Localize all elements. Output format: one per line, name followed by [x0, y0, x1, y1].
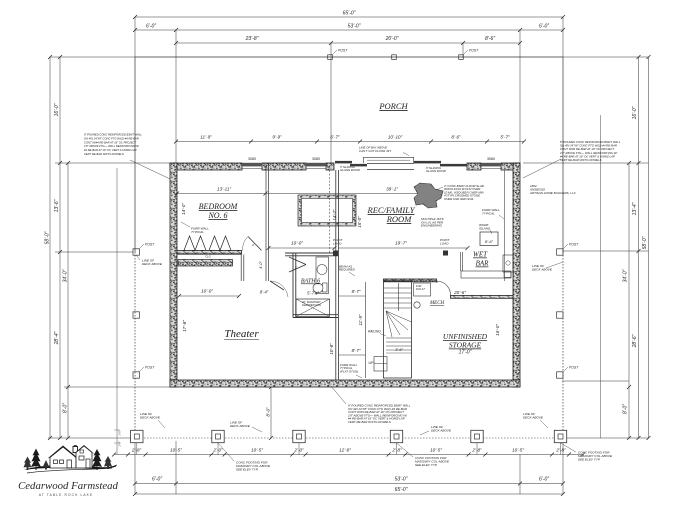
svg-text:WET: WET: [473, 251, 488, 259]
room label BEDROOM NO. 6: [199, 202, 239, 220]
svg-text:POST: POST: [145, 366, 155, 370]
label furr wall typical wet bar: [482, 208, 504, 219]
svg-text:RAILING: RAILING: [368, 330, 381, 334]
porch post: [392, 55, 397, 60]
work island wet bar: [479, 223, 498, 246]
svg-text:LOAD: LOAD: [333, 241, 342, 245]
svg-text:Cedarwood Farmstead: Cedarwood Farmstead: [18, 480, 118, 492]
svg-text:13’-11”: 13’-11”: [217, 187, 231, 192]
concrete footing for masonry column: [554, 430, 566, 454]
top extension lines: [135, 17, 563, 163]
masonry shower pan: [296, 299, 330, 317]
line of bay above: [359, 146, 414, 164]
svg-text:53’-0”: 53’-0”: [395, 477, 408, 483]
label line of deck above (bottom left-mid): [230, 421, 262, 433]
dim top row overall 65'-0": [133, 11, 565, 20]
concrete footing for masonry column: [293, 430, 305, 454]
note poured conc wall right: [523, 140, 621, 178]
svg-text:2’-0”: 2’-0”: [212, 448, 223, 453]
hall left wall: [240, 255, 242, 281]
stair shaft: [384, 281, 412, 378]
svg-text:POST: POST: [338, 49, 348, 53]
storage top wall: [451, 296, 514, 299]
label furr wall typical storage: [340, 363, 362, 378]
deck bottom edge (line of deck above): [135, 437, 563, 439]
svg-text:OVER UND GRD SOIL: OVER UND GRD SOIL: [444, 197, 474, 201]
svg-text:2’8” ABOVE FTG— WALL REINFORCI: 2’8” ABOVE FTG— WALL REINFORCING W/: [83, 144, 139, 148]
dim top row 6'/53'/6': [133, 24, 565, 33]
svg-text:17’-0”: 17’-0”: [459, 350, 472, 356]
svg-text:28’-4”: 28’-4”: [54, 331, 60, 345]
bedroom right wall: [265, 163, 267, 281]
hall door to theater with swing: [260, 281, 288, 297]
svg-text:GLASS DOOR: GLASS DOOR: [340, 168, 361, 172]
porch dim row 11'-9" etc: [174, 135, 526, 144]
note conc footing right: [561, 443, 613, 461]
stone hearth crosshatched: [414, 183, 443, 208]
svg-text:5’-7¾”: 5’-7¾”: [307, 291, 319, 296]
bar sink counter L-shape: [461, 255, 513, 278]
svg-text:14’-0”: 14’-0”: [181, 203, 186, 215]
dim left 34' / 8' line: [63, 161, 71, 440]
basement wall top-right segment: [501, 163, 520, 170]
stair hall dim 8'-7" lower: [339, 348, 366, 355]
theater dim 10'-0": [177, 289, 241, 299]
window 3080 den: [306, 157, 326, 169]
svg-text:8’-0”: 8’-0”: [623, 404, 629, 414]
logo cedarwood farmstead illustration: [24, 445, 118, 473]
concrete footing for masonry column: [390, 430, 402, 454]
svg-text:2’-0”: 2’-0”: [293, 448, 304, 453]
svg-text:LOAD: LOAD: [440, 241, 449, 245]
svg-text:17’-8”: 17’-8”: [182, 320, 187, 332]
svg-text:10’-8”: 10’-8”: [329, 343, 334, 355]
right extension lines: [523, 57, 649, 438]
rev circle mech: [414, 302, 420, 308]
svg-text:10’-10”: 10’-10”: [388, 135, 403, 140]
basement wall top seg between windows: [262, 163, 306, 170]
svg-text:8’-4”: 8’-4”: [260, 290, 269, 295]
porch/deck top edge: [135, 56, 563, 58]
label beam as required: [339, 265, 356, 277]
dim bottom 65' row: [133, 487, 565, 496]
svg-text:Theater: Theater: [224, 328, 259, 340]
left extension lines: [48, 57, 170, 438]
svg-text:PLN AT: PLN AT: [416, 287, 425, 291]
svg-text:8’-6”: 8’-6”: [485, 36, 495, 42]
bath left wall: [292, 253, 294, 318]
8' sliding glass door: [414, 161, 467, 173]
svg-text:3080: 3080: [312, 157, 320, 161]
furr wall line right: [504, 170, 506, 281]
svg-text:10’-0”: 10’-0”: [201, 289, 213, 294]
svg-text:10’-5”: 10’-5”: [430, 448, 442, 453]
svg-text:SEE ELEV TYP.: SEE ELEV TYP.: [415, 463, 438, 467]
basement wall top seg door2-window3: [467, 163, 481, 170]
svg-text:20’-6”: 20’-6”: [453, 290, 466, 295]
svg-text:58’-0”: 58’-0”: [642, 236, 648, 249]
svg-text:(FLAT STUD): (FLAT STUD): [340, 369, 358, 373]
closet furr band: [178, 260, 233, 267]
stair/mech top wall: [384, 279, 437, 282]
note conc bsmt floor slab: [436, 184, 485, 201]
room label WET BAR: [473, 251, 489, 268]
svg-text:34’-0”: 34’-0”: [63, 269, 69, 282]
svg-text:19’-7”: 19’-7”: [395, 241, 407, 246]
svg-text:BEDROOM: BEDROOM: [199, 202, 239, 211]
deck post right: [557, 243, 580, 256]
svg-text:11’-9”: 11’-9”: [200, 135, 212, 140]
label line of deck above (bottom far-right): [523, 412, 548, 428]
porch post: [459, 49, 479, 60]
svg-text:SEE ELEV TYP.: SEE ELEV TYP.: [578, 457, 601, 461]
svg-text:28’-6”: 28’-6”: [632, 334, 638, 348]
basement wall bottom: [170, 380, 520, 387]
centre wall theater/rec: [336, 170, 339, 380]
bedroom door with swing: [242, 237, 261, 251]
svg-text:3080: 3080: [487, 157, 495, 161]
closet wall bedroom bottom: [177, 250, 242, 254]
deck post left: [133, 366, 155, 379]
deck right edge: [562, 57, 564, 252]
bath door leaf: [289, 257, 306, 272]
tray/soffit rectangle 14'-2": [298, 195, 356, 226]
footing extension line left: [116, 168, 118, 454]
svg-text:34’-0”: 34’-0”: [623, 269, 629, 282]
bath top wall: [285, 252, 338, 254]
stair landing: [369, 357, 388, 372]
svg-text:ON 4IN 24”X8” CONC FTG W/(2)-#: ON 4IN 24”X8” CONC FTG W/(2)-#4 RE-BAR: [84, 136, 139, 140]
svg-text:DECK ABOVE: DECK ABOVE: [532, 267, 553, 271]
svg-text:ENGINEERING: ENGINEERING: [421, 224, 443, 228]
label line of deck above (right edge): [532, 262, 563, 271]
stair hall wall: [365, 282, 367, 378]
svg-text:DECK ABOVE: DECK ABOVE: [140, 415, 161, 419]
porch post: [328, 49, 348, 60]
deck left edge (line of deck above): [134, 57, 136, 252]
toilet bath 6: [313, 283, 327, 293]
svg-text:VERT RE-BAR W/FTG DOWELS: VERT RE-BAR W/FTG DOWELS: [348, 420, 391, 424]
svg-text:16’-0”: 16’-0”: [54, 103, 60, 116]
svg-text:8’-0”: 8’-0”: [63, 403, 69, 413]
svg-text:DECK ABOVE: DECK ABOVE: [142, 262, 163, 266]
svg-text:4’-0”: 4’-0”: [259, 260, 263, 268]
svg-text:8’-7”: 8’-7”: [352, 348, 361, 353]
svg-text:65’-0”: 65’-0”: [395, 487, 408, 493]
svg-text:ISLAND: ISLAND: [479, 226, 491, 230]
svg-text:REQUIRED: REQUIRED: [339, 268, 356, 272]
wet bar left furr wall: [460, 252, 462, 271]
room label UNFINISHED STORAGE: [443, 332, 488, 356]
svg-text:8’-6”: 8’-6”: [451, 135, 461, 140]
svg-text:TYPICAL: TYPICAL: [191, 230, 204, 234]
svg-text:6’-0”: 6’-0”: [146, 24, 156, 30]
footing extension line right: [600, 115, 602, 438]
note poured conc wall left: [83, 133, 170, 180]
svg-text:SEE ELEV TYP.: SEE ELEV TYP.: [236, 467, 259, 471]
svg-text:MECH: MECH: [429, 301, 445, 306]
svg-text:STORAGE: STORAGE: [449, 341, 482, 350]
window 3080 bedroom: [242, 157, 262, 169]
stair dim 3'-6": [386, 348, 412, 353]
svg-text:ROOM: ROOM: [386, 214, 412, 224]
svg-text:13’-4”: 13’-4”: [632, 202, 638, 215]
svg-text:53’-0”: 53’-0”: [348, 24, 361, 30]
svg-text:10’-5”: 10’-5”: [512, 448, 524, 453]
note conc footing left: [218, 443, 271, 471]
deck post left: [133, 312, 139, 318]
bath bottom wall: [293, 314, 338, 316]
svg-text:3’-6”: 3’-6”: [395, 348, 403, 352]
svg-text:6’-0”: 6’-0”: [152, 477, 162, 483]
svg-text:SHOWER PAN: SHOWER PAN: [302, 303, 322, 307]
svg-text:DECK ABOVE: DECK ABOVE: [431, 428, 452, 432]
basement wall right: [513, 163, 520, 387]
stair hall dim 8'-7" upper: [339, 289, 366, 296]
svg-text:8” POURED CONC REINFORCED BSMT: 8” POURED CONC REINFORCED BSMT WALL: [84, 133, 143, 137]
dim bottom 6'/53'/6' row: [133, 477, 565, 486]
label furr wall typical bedroom: [181, 222, 209, 234]
svg-text:PORCH: PORCH: [378, 101, 408, 111]
concrete footing for masonry column: [131, 430, 143, 454]
basement wall top seg window2-door1: [326, 163, 334, 170]
deck post right: [557, 366, 580, 379]
dim 13'-11" bedroom: [175, 187, 268, 196]
svg-text:16’-0”: 16’-0”: [357, 216, 362, 228]
dim 8'-0" deck bottom centre: [264, 385, 278, 440]
svg-text:POST: POST: [469, 49, 479, 53]
svg-text:2’-8”: 2’-8”: [131, 448, 142, 453]
svg-text:8’-7”: 8’-7”: [352, 289, 361, 294]
svg-text:6’-0”: 6’-0”: [539, 477, 549, 483]
svg-text:23’-8”: 23’-8”: [245, 36, 259, 42]
mech door arc: [437, 281, 451, 296]
basement wall top seg under bay (no hatch): [367, 163, 414, 169]
vanity counter bath 6: [316, 257, 329, 294]
room label REC/FAMILY ROOM: [367, 205, 416, 224]
furnace plenum box: [414, 283, 431, 296]
footing dim 1'-0" marks: [114, 430, 122, 447]
svg-text:DECK ABOVE: DECK ABOVE: [523, 415, 544, 419]
label railing: [368, 330, 386, 337]
svg-text:10’-5”: 10’-5”: [251, 448, 263, 453]
svg-text:3’: 3’: [252, 243, 255, 247]
svg-text:POST: POST: [145, 243, 155, 247]
svg-text:58’-0”: 58’-0”: [45, 231, 51, 244]
svg-text:POST: POST: [569, 366, 579, 370]
svg-text:2’-8”: 2’-8”: [471, 448, 482, 453]
note poured conc wall bottom: [331, 386, 411, 424]
svg-text:NO. 6: NO. 6: [207, 211, 227, 220]
svg-text:BAR: BAR: [476, 260, 490, 268]
basement wall top-left segment: [170, 163, 242, 170]
svg-text:POST: POST: [569, 243, 579, 247]
svg-text:2’-8”: 2’-8”: [391, 448, 402, 453]
label line of deck above (bottom right-mid): [420, 425, 452, 435]
window 3080 rec room: [481, 157, 501, 169]
beam dashed line centre: [329, 170, 331, 253]
svg-text:ARTISAN HOME BUILDERS, LLC: ARTISAN HOME BUILDERS, LLC: [529, 191, 577, 195]
concrete footing for masonry column: [471, 430, 483, 454]
svg-text:CAN’T OUT FLOOR JST: CAN’T OUT FLOOR JST: [359, 149, 391, 153]
5' sliding glass door: [335, 161, 367, 172]
dim top row 23'-8"/20'/8'-6": [174, 36, 522, 45]
dim left 58'-0" line: [45, 55, 53, 440]
svg-text:2’-8”: 2’-8”: [555, 448, 566, 453]
label line of deck above (bottom far-left): [140, 412, 165, 428]
svg-text:16’-0”: 16’-0”: [495, 324, 500, 336]
svg-text:AT TABLE ROCK LAKE: AT TABLE ROCK LAKE: [39, 493, 94, 497]
dim 19'-7" rec room: [339, 241, 470, 251]
dim left 16'/13'-6"/28'-4" line: [54, 55, 62, 440]
svg-text:13’-6”: 13’-6”: [54, 199, 60, 212]
svg-text:2’: 2’: [294, 266, 298, 270]
svg-text:1’-0”: 1’-0”: [118, 441, 122, 446]
dim right 58'-0" line: [642, 55, 651, 440]
svg-text:VERT RE-BAR W/FTG DOWELS: VERT RE-BAR W/FTG DOWELS: [84, 152, 124, 156]
svg-text:DECK ABOVE: DECK ABOVE: [230, 424, 251, 428]
svg-text:6’-7”: 6’-7”: [330, 135, 340, 140]
concrete footing for masonry column: [212, 430, 224, 454]
svg-text:BATH 6: BATH 6: [301, 279, 320, 285]
svg-text:14’-2”: 14’-2”: [332, 209, 337, 221]
point load marker right: [440, 238, 451, 256]
svg-text:TYPICAL: TYPICAL: [482, 211, 495, 215]
svg-text:VERT RE-BAR W/FTG DOWELS: VERT RE-BAR W/FTG DOWELS: [560, 158, 602, 162]
note conc footing middle: [397, 443, 450, 467]
svg-text:12’-8”: 12’-8”: [339, 448, 351, 453]
svg-text:9’-9”: 9’-9”: [272, 135, 282, 140]
svg-text:6’-0”: 6’-0”: [539, 24, 549, 30]
svg-text:5’-7”: 5’-7”: [500, 135, 510, 140]
svg-text:39’-1”: 39’-1”: [386, 187, 398, 192]
svg-text:8’-0”: 8’-0”: [266, 407, 271, 417]
label line of deck above (left edge): [136, 255, 163, 266]
svg-text:UP: UP: [369, 361, 375, 365]
svg-text:3080: 3080: [248, 157, 256, 161]
svg-text:#4 RE-BAR AT 16” OC VERT & HOR: #4 RE-BAR AT 16” OC VERT & HORIZ-LAP: [84, 148, 137, 152]
svg-text:1’-0”: 1’-0”: [118, 430, 122, 435]
svg-text:8’-6”: 8’-6”: [485, 239, 494, 244]
dim right 16'/13'-4"/28'-6" line: [632, 55, 641, 440]
svg-text:20’-0”: 20’-0”: [385, 36, 399, 42]
deck post left: [133, 243, 155, 256]
deck post right: [557, 312, 563, 318]
svg-text:16’-0”: 16’-0”: [632, 106, 638, 119]
svg-text:10’-0”: 10’-0”: [291, 241, 303, 246]
dim 10'-0" hall top: [267, 241, 337, 251]
svg-text:CONT W/#4 RE-BAR AT 16” OC PRO: CONT W/#4 RE-BAR AT 16” OC PROJECT: [84, 140, 136, 144]
dim right 34' / 8' line: [623, 161, 632, 440]
svg-text:65’-0”: 65’-0”: [343, 11, 356, 17]
svg-text:11’-9”: 11’-9”: [358, 314, 363, 325]
svg-text:CLO: CLO: [205, 255, 212, 259]
bottom extension lines: [135, 438, 563, 494]
closet bifold doors: [184, 236, 231, 259]
point load marker left: [333, 238, 344, 256]
dim bottom footing row: [112, 448, 585, 457]
dim 39'-1": [266, 187, 437, 196]
basement wall left: [170, 163, 177, 387]
svg-text:GLASS DOOR: GLASS DOOR: [426, 169, 447, 173]
